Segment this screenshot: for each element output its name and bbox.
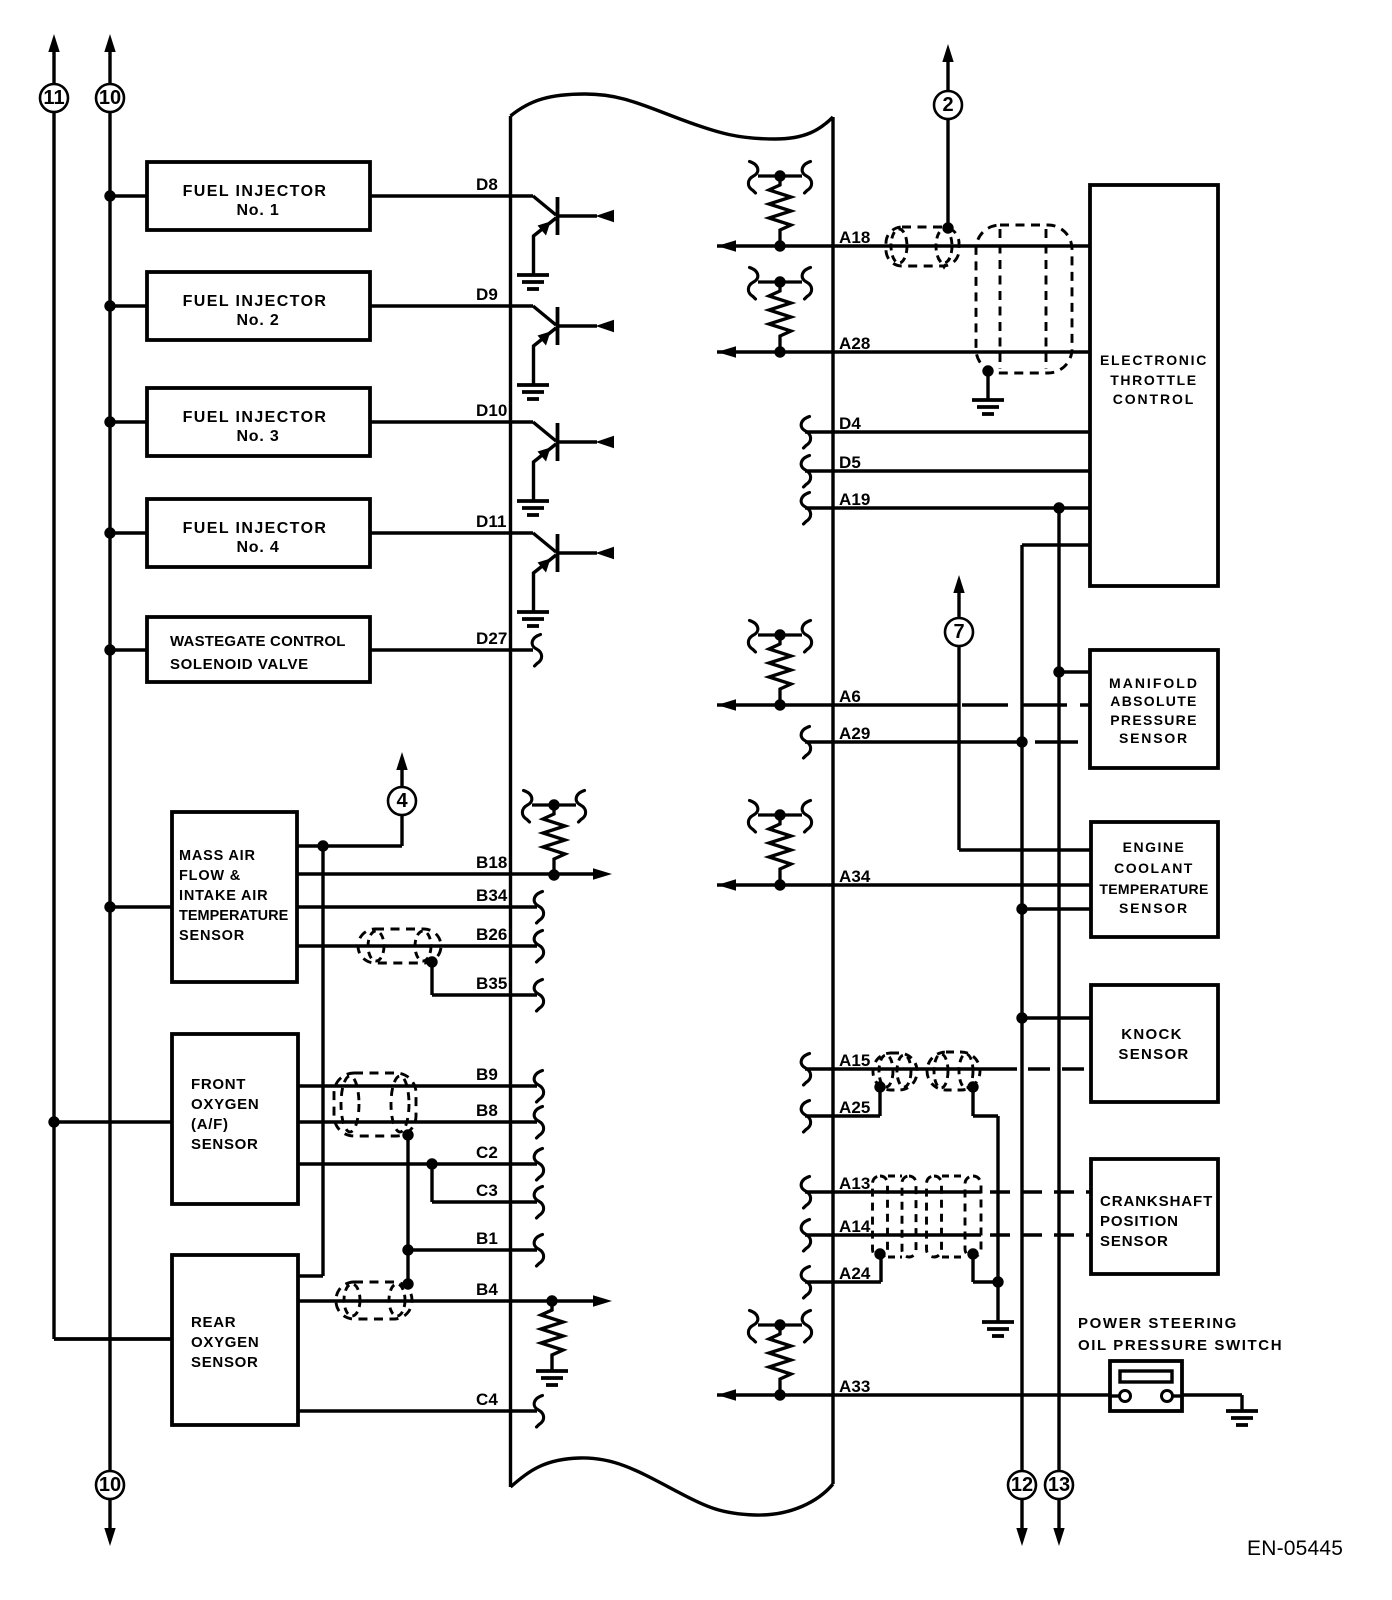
ECM band top wavy edge <box>511 94 834 139</box>
svg-text:A29: A29 <box>839 724 871 743</box>
power rail 10 (vertical wire, arrows, circled 10 top and bottom) <box>96 34 124 1546</box>
svg-text:13: 13 <box>1048 1474 1070 1496</box>
svg-text:D9: D9 <box>476 285 498 304</box>
fuel injector No.1 box <box>147 162 370 230</box>
wire C3 branch to ECM, pin label C3, continuation hook <box>432 1164 544 1218</box>
svg-text:A6: A6 <box>839 687 861 706</box>
svg-text:4: 4 <box>396 790 408 812</box>
svg-text:B34: B34 <box>476 886 508 905</box>
fuel injector No.2 box <box>147 272 370 340</box>
svg-text:A15: A15 <box>839 1051 871 1070</box>
svg-text:SOLENOID VALVE: SOLENOID VALVE <box>170 656 309 673</box>
transistor Q2 with emitter ground inside ECM <box>517 306 614 399</box>
resistor to A34 wire with hooks and junctions <box>748 801 811 891</box>
svg-text:KNOCK: KNOCK <box>1121 1026 1183 1043</box>
electronic throttle control box <box>1090 185 1218 586</box>
svg-text:D11: D11 <box>476 512 507 531</box>
svg-text:C3: C3 <box>476 1181 498 1200</box>
svg-text:D4: D4 <box>839 414 861 433</box>
svg-text:10: 10 <box>99 1474 121 1496</box>
circled 13 reference with down arrow on sensor bus <box>1045 1471 1073 1546</box>
svg-text:CRANKSHAFT: CRANKSHAFT <box>1100 1193 1213 1210</box>
circled 4 reference with up arrow <box>388 752 416 846</box>
wire C2 from front oxygen sensor to ECM, pin label C2, junction to C3 <box>298 1143 544 1180</box>
wire A25 from ECM to A15 shield drain, hook, pin label A25 <box>801 1087 880 1132</box>
wire from pressure switch to ground <box>1182 1395 1258 1425</box>
rear oxygen sensor box <box>172 1255 298 1425</box>
transistor Q1 with emitter ground inside ECM <box>517 196 614 289</box>
power rail 11 (vertical wire, arrow, circled 11) <box>40 34 172 1339</box>
wire D9 from fuel injector No.2 to ECM, pin label D9 <box>370 285 533 306</box>
wastegate control solenoid valve box <box>147 617 370 682</box>
wire from MAF sensor top pin to circled 4 branch, junction node <box>297 840 402 851</box>
pull-up resistor on B18 with junction dots and hooks <box>522 791 585 881</box>
wire from rail 10 to fuel injector No.1, junction on rail 10 <box>104 190 147 201</box>
wire from MAF junction down to rear oxygen sensor <box>297 846 323 1276</box>
wire from rail 11 to front oxygen sensor, junction on rail 11 <box>48 1116 172 1127</box>
svg-text:ELECTRONIC: ELECTRONIC <box>1100 352 1208 368</box>
wire from rail 10 to fuel injector No.3, junction on rail 10 <box>104 416 147 427</box>
wire from rail 11 bottom corner to rear oxygen sensor <box>54 1337 172 1340</box>
front oxygen (A/F) sensor box <box>172 1034 298 1204</box>
wire A24 from ECM to A13/A14 shield drain, hook, pin label A24 <box>801 1254 881 1298</box>
wire B4 from rear oxygen sensor through ECM edge, pin label B4, right arrow <box>298 1280 612 1307</box>
svg-text:No. 4: No. 4 <box>236 539 279 556</box>
svg-text:C2: C2 <box>476 1143 498 1162</box>
svg-text:SENSOR: SENSOR <box>191 1136 259 1153</box>
wire B34 from MAF sensor to ECM, pin label B34, continuation hook <box>297 886 544 923</box>
svg-text:TEMPERATURE: TEMPERATURE <box>1099 881 1208 897</box>
shield around A18/A28 pair (dashed) with ground drain <box>976 225 1072 377</box>
svg-text:ABSOLUTE: ABSOLUTE <box>1110 693 1197 709</box>
svg-text:B1: B1 <box>476 1229 498 1248</box>
ECM band right edge <box>831 117 834 1484</box>
wire B9 from front oxygen sensor to ECM, pin label B9, continuation hook <box>298 1065 544 1102</box>
svg-text:POSITION: POSITION <box>1100 1213 1179 1230</box>
shield around B9/B8 wires (dashed) with drain junction <box>334 1073 416 1141</box>
svg-text:A28: A28 <box>839 334 871 353</box>
wire from rail 10 to MAF sensor, junction on rail 10 <box>104 901 172 912</box>
transistor Q4 with emitter ground inside ECM <box>517 533 614 626</box>
wire B1 shield drain to ECM, pin label B1, continuation hook, junction <box>402 1229 543 1266</box>
mass air flow & intake air temperature sensor box <box>172 812 297 982</box>
svg-text:No. 3: No. 3 <box>236 428 279 445</box>
shield around B4 wire (dashed) with drain junction on top <box>336 1278 414 1319</box>
resistor to A18 wire with hooks and junctions <box>748 162 811 252</box>
shield around B26 wire (dashed) with drain junction <box>358 929 441 968</box>
shield ground for A13/A14 and A15 drains <box>982 1322 1014 1336</box>
svg-text:A24: A24 <box>839 1264 871 1283</box>
power steering oil pressure switch symbol <box>1110 1361 1182 1411</box>
circled 7 reference with up arrow and wire to coolant sensor <box>945 575 1091 850</box>
svg-text:D10: D10 <box>476 401 508 420</box>
svg-text:D27: D27 <box>476 629 508 648</box>
svg-text:SENSOR: SENSOR <box>1100 1233 1169 1250</box>
svg-text:POWER STEERING: POWER STEERING <box>1078 1315 1238 1332</box>
svg-text:B18: B18 <box>476 853 508 872</box>
svg-text:FRONT: FRONT <box>191 1076 246 1093</box>
svg-text:B8: B8 <box>476 1101 498 1120</box>
svg-text:(A/F): (A/F) <box>191 1116 229 1133</box>
svg-text:SENSOR: SENSOR <box>191 1354 259 1371</box>
wire from rail 10 to fuel injector No.4, junction on rail 10 <box>104 527 147 538</box>
svg-text:PRESSURE: PRESSURE <box>1110 712 1197 728</box>
svg-text:B9: B9 <box>476 1065 498 1084</box>
svg-text:C4: C4 <box>476 1390 498 1409</box>
wire B26 from MAF sensor to ECM, pin label B26, continuation hook <box>297 925 544 962</box>
wire A13 from ECM to crankshaft sensor, hook, pin label A13, dashed shielded section <box>801 1174 1091 1208</box>
ECM band left edge <box>509 116 512 1487</box>
svg-text:A18: A18 <box>839 228 871 247</box>
circled 2 reference with up arrow and drain wire to A18 shield <box>934 44 962 234</box>
svg-text:D8: D8 <box>476 175 498 194</box>
svg-text:No. 1: No. 1 <box>236 202 279 219</box>
wire A6 from ECM to MAP sensor, left arrow, pin label A6, dashed shielded section <box>717 687 1090 711</box>
shield drain wire from B9/B8 shield down to B4 shield <box>406 1135 409 1284</box>
svg-text:OIL PRESSURE SWITCH: OIL PRESSURE SWITCH <box>1078 1337 1283 1354</box>
wire A19 from ECM to throttle control, hook, pin label A19, junction to sensor bus <box>801 490 1090 524</box>
wire from sensor bus to MAP sensor, junction <box>1053 666 1090 677</box>
svg-text:11: 11 <box>43 87 64 109</box>
svg-text:10: 10 <box>99 87 121 109</box>
svg-text:A33: A33 <box>839 1377 871 1396</box>
wire D5 from ECM to throttle control, hook, pin label D5 <box>801 453 1090 487</box>
svg-text:SENSOR: SENSOR <box>1119 730 1189 746</box>
svg-text:MASS AIR: MASS AIR <box>179 848 256 864</box>
svg-text:A13: A13 <box>839 1174 871 1193</box>
wire D27 from wastegate valve to ECM, pin label D27, continuation hook <box>370 629 542 666</box>
svg-text:SENSOR: SENSOR <box>1119 900 1189 916</box>
wire from throttle control lower pin to supply bus <box>1022 545 1090 1485</box>
shield drain wire from A15 shield to ground bus <box>973 1087 998 1322</box>
svg-text:SENSOR: SENSOR <box>1118 1046 1189 1063</box>
svg-text:B4: B4 <box>476 1280 498 1299</box>
engine coolant temperature sensor box <box>1091 822 1218 937</box>
shield ground for A18/A28 <box>972 371 1004 414</box>
svg-text:B26: B26 <box>476 925 508 944</box>
svg-text:COOLANT: COOLANT <box>1114 860 1194 876</box>
wire from coolant sensor to supply bus, junction <box>1016 903 1091 914</box>
wire B18 from MAF sensor through ECM edge, pin label B18, right arrow <box>297 853 612 880</box>
svg-text:OXYGEN: OXYGEN <box>191 1096 259 1113</box>
svg-text:A34: A34 <box>839 867 871 886</box>
wire A29 from ECM to MAP sensor, hook, pin label A29, junction on supply bus <box>801 724 1090 758</box>
crankshaft position sensor box <box>1091 1159 1218 1274</box>
svg-text:A14: A14 <box>839 1217 871 1236</box>
resistor to A6 wire with hooks and junctions <box>748 621 811 711</box>
wire A28 from ECM to electronic throttle control, left arrow, pin label A28 <box>717 334 1090 358</box>
knock sensor box <box>1091 985 1218 1102</box>
small shield around A18 wire (dashed) with drain arrow <box>886 227 959 267</box>
svg-text:FUEL INJECTOR: FUEL INJECTOR <box>183 293 328 310</box>
wire from rail 10 to fuel injector No.2, junction on rail 10 <box>104 300 147 311</box>
wire C4 from rear oxygen sensor to ECM, pin label C4, continuation hook <box>298 1390 544 1427</box>
svg-text:FUEL INJECTOR: FUEL INJECTOR <box>183 183 328 200</box>
svg-text:SENSOR: SENSOR <box>179 928 245 944</box>
svg-text:B35: B35 <box>476 974 508 993</box>
wire from knock sensor to supply bus, junction <box>1016 1012 1091 1023</box>
svg-text:A25: A25 <box>839 1098 871 1117</box>
wire A15 from ECM to knock sensor, hook, pin label A15, dashed shielded section <box>801 1051 1091 1085</box>
svg-text:7: 7 <box>953 621 964 643</box>
shield drain from A13/A14 shield to ground bus, junction <box>973 1254 1004 1288</box>
svg-text:A19: A19 <box>839 490 871 509</box>
pull-down resistor on B4 with ground <box>536 1295 568 1385</box>
svg-text:REAR: REAR <box>191 1314 236 1331</box>
svg-text:MANIFOLD: MANIFOLD <box>1109 675 1199 691</box>
wire A33 from ECM to pressure switch, left arrow, pin label A33 <box>717 1377 1110 1401</box>
svg-text:OXYGEN: OXYGEN <box>191 1334 259 1351</box>
svg-text:ENGINE: ENGINE <box>1123 839 1186 855</box>
shield around A15 wire (dashed, two sections) with drain junctions <box>873 1052 980 1093</box>
svg-text:D5: D5 <box>839 453 861 472</box>
svg-text:THROTTLE: THROTTLE <box>1110 372 1197 388</box>
svg-text:EN-05445: EN-05445 <box>1247 1537 1343 1560</box>
circled 12 reference with down arrow on supply bus <box>1008 1471 1036 1546</box>
twisted shield around A13/A14 pair (dashed lobes) with drain junctions <box>873 1176 982 1260</box>
wire B35 shield drain to ECM, pin label B35, continuation hook <box>432 962 544 1011</box>
resistor to A33 wire with hooks and junctions <box>748 1311 811 1401</box>
svg-text:CONTROL: CONTROL <box>1113 391 1196 407</box>
wire A18 from ECM to electronic throttle control, left arrow, pin label A18 <box>717 228 1090 252</box>
svg-text:TEMPERATURE: TEMPERATURE <box>179 908 289 924</box>
svg-text:WASTEGATE CONTROL: WASTEGATE CONTROL <box>170 633 346 650</box>
ECM band bottom wavy edge <box>511 1458 834 1515</box>
svg-text:FUEL INJECTOR: FUEL INJECTOR <box>183 520 328 537</box>
svg-text:12: 12 <box>1011 1474 1033 1496</box>
svg-text:2: 2 <box>942 94 953 116</box>
manifold absolute pressure sensor box <box>1090 650 1218 768</box>
power steering oil pressure switch label <box>1078 1315 1283 1354</box>
wire A34 from ECM to coolant sensor, left arrow, pin label A34 <box>717 867 1091 891</box>
wire from rail 10 to wastegate valve, junction on rail 10 <box>104 644 147 655</box>
wire D11 from fuel injector No.4 to ECM, pin label D11 <box>370 512 533 533</box>
transistor Q3 with emitter ground inside ECM <box>517 422 614 515</box>
wire A14 from ECM to crankshaft sensor, hook, pin label A14, dashed shielded section <box>801 1217 1091 1251</box>
svg-text:INTAKE AIR: INTAKE AIR <box>179 888 268 904</box>
sensor bus vertical wire from A19 junction down to circled 13 <box>1057 508 1060 1485</box>
resistor to A28 wire with hooks and junctions <box>748 268 811 358</box>
wire B8 from front oxygen sensor to ECM, pin label B8, continuation hook <box>298 1101 544 1138</box>
svg-text:FUEL INJECTOR: FUEL INJECTOR <box>183 409 328 426</box>
svg-text:FLOW &: FLOW & <box>179 868 241 884</box>
wire D10 from fuel injector No.3 to ECM, pin label D10 <box>370 401 533 422</box>
svg-text:No. 2: No. 2 <box>236 312 279 329</box>
wire D4 from ECM to throttle control, hook, pin label D4 <box>801 414 1090 448</box>
fuel injector No.3 box <box>147 388 370 456</box>
fuel injector No.4 box <box>147 499 370 567</box>
wire D8 from fuel injector No.1 to ECM, pin label D8 <box>370 175 533 196</box>
